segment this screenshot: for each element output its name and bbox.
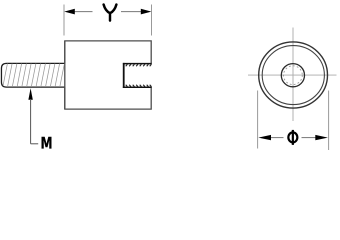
end view: horizontal centerline [248,74,337,76]
leader M: horizontal foot [31,143,39,145]
dimension Y: right arrowhead [141,9,152,15]
dimension Y: left extension line [63,5,65,36]
label Phi [288,130,297,145]
dimension Phi: right arrowhead [315,135,328,140]
dimension Phi: left extension line [257,91,259,149]
end view: outer circle [259,42,328,108]
end view: vertical centerline [292,28,294,122]
end view: thread dashed circle [284,66,303,85]
dimension Phi: dimension line segments [271,137,284,139]
label Y [104,5,117,21]
dimension Phi: right extension line [328,91,330,151]
standoff body outline (side view) [65,41,151,109]
tapped hole slot: top edge [123,63,152,65]
dimension Y: dimension line segments [74,11,93,13]
dimension Phi: left arrowhead [258,135,271,140]
end view: tapped hole circle [281,64,304,87]
threaded stud (side view, male thread) [1,63,65,87]
end view: chamfer circle [262,46,324,105]
tapped hole slot: bottom edge [123,86,152,88]
body left edge (full) [64,41,66,109]
thread teeth under top edge of slot [126,64,152,66]
stud thread hatch lines [3,64,65,87]
dimension Y: right extension line [151,5,153,36]
thread teeth above bottom edge of slot [126,85,152,87]
leader M: arrowhead pointing up at stud [28,88,32,100]
dimension Y: left arrowhead [64,9,75,15]
leader M: vertical line [30,99,32,144]
tapped hole slot: left wall [123,63,125,88]
label M [42,137,52,149]
